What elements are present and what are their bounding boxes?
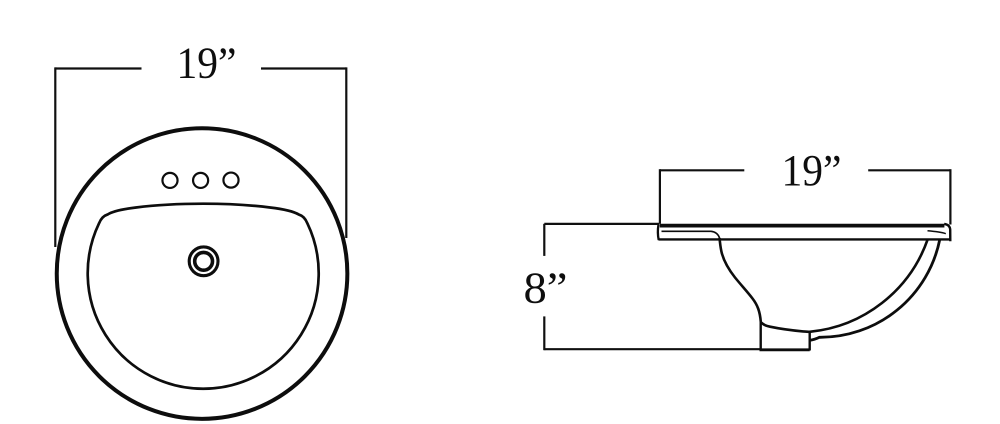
top view: sink outer rim circle: [57, 128, 348, 419]
side view: 8" top tick to countertop: [544, 223, 659, 225]
side view: 8" bottom tick to drain base: [544, 348, 759, 350]
top view: faucet hole left: [162, 173, 177, 188]
side view: drain stub bottom edge: [760, 348, 810, 351]
side view: sink rim underside left: [662, 231, 720, 238]
side view: countertop top surface: [660, 224, 945, 228]
top view: faucet hole right: [223, 173, 238, 188]
top view: dimension line 19" right segment: [261, 67, 346, 69]
top view: faucet hole center: [193, 173, 208, 188]
svg-text:8”: 8”: [524, 262, 568, 312]
side view: dimension line 8" vertical lower segment: [543, 316, 545, 350]
svg-text:19”: 19”: [177, 38, 237, 88]
top view: drain outer ring: [189, 247, 218, 276]
side view: dimension line 8" vertical upper segment: [543, 224, 545, 256]
side view: dimension line 19" right segment: [868, 169, 950, 171]
side view: drain stub right edge: [809, 332, 811, 351]
side view: extension line right: [949, 169, 951, 224]
side view: bowl outer wall: [810, 240, 940, 340]
side view: countertop bullnose inner contour: [928, 231, 946, 234]
top view: dimension line 19" left segment: [55, 67, 141, 69]
side view: countertop left edge: [657, 224, 660, 240]
top view: extension line right: [345, 67, 347, 238]
side view: bowl inner wall: [720, 238, 928, 332]
top view: extension line left: [54, 67, 56, 247]
side view: countertop bottom edge: [658, 238, 949, 240]
svg-text:19”: 19”: [782, 145, 842, 195]
top view: inner basin outline: [88, 204, 319, 389]
side view: countertop right bullnose edge: [944, 224, 950, 241]
side view: extension line left: [659, 169, 661, 224]
top view: drain inner ring: [195, 252, 213, 270]
side view: drain stub left edge: [760, 323, 762, 349]
side view: dimension line 19" left segment: [660, 169, 744, 171]
